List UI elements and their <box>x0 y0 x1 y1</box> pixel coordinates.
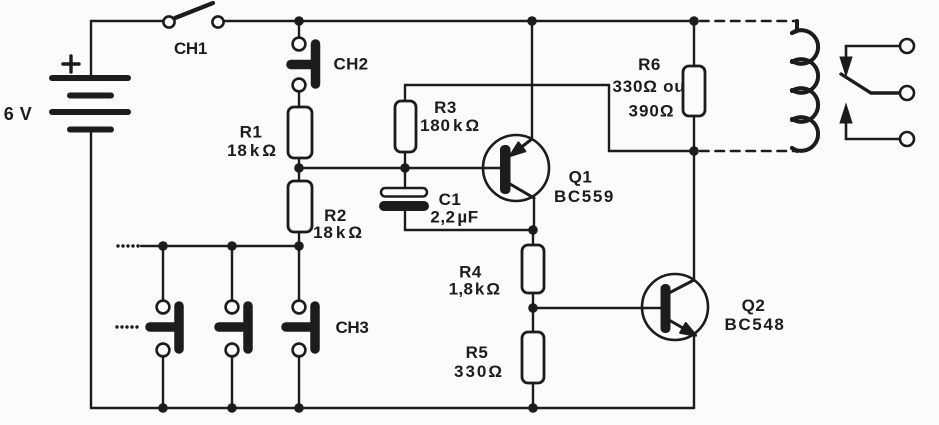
wire dashed bottom to relay coil <box>700 150 797 153</box>
label R1 <box>227 123 277 161</box>
pushbutton CH3c <box>286 252 315 408</box>
node junction CH3c/bottom rail <box>294 403 304 413</box>
svg-text:330Ω: 330Ω <box>454 362 504 381</box>
relay contact NO arm bottom <box>840 104 899 139</box>
svg-text:CH2: CH2 <box>334 55 369 74</box>
node junction CH3c/bus <box>294 241 304 251</box>
svg-text:CH3: CH3 <box>335 318 368 337</box>
switch CH1 <box>163 3 223 28</box>
svg-text:R3: R3 <box>434 98 457 117</box>
resistor R4 1.8k <box>522 230 544 332</box>
wire CH3 top bus <box>141 245 299 247</box>
svg-text:330Ω ou: 330Ω ou <box>612 77 685 96</box>
relay contact NC arm top <box>840 46 899 76</box>
pushbutton CH3a <box>150 246 179 408</box>
svg-text:18 k Ω: 18 k Ω <box>313 223 363 242</box>
resistor R3 180k <box>395 85 416 152</box>
wire R2 bottom to CH3 wire <box>298 232 300 252</box>
relay contact terminal middle <box>900 86 914 100</box>
node junction CH3a/bus <box>158 241 168 251</box>
node junction R6 top/top rail <box>689 16 699 26</box>
node junction CH2/top rail <box>294 16 304 26</box>
svg-text:1,8 k Ω: 1,8 k Ω <box>449 280 501 299</box>
svg-text:R5: R5 <box>466 343 489 362</box>
resistor R1 18k <box>288 107 312 158</box>
svg-text:390Ω: 390Ω <box>629 102 675 121</box>
dotted continuation CH3 plunger <box>115 325 138 328</box>
node junction C1/Q1 collector/R4 <box>528 225 538 235</box>
battery B1 6V <box>52 21 128 408</box>
resistor R6 330/390 <box>683 21 705 151</box>
relay contact common lever <box>841 74 899 93</box>
resistor R2 18k <box>288 181 312 232</box>
wire R1 bottom to R2 top <box>298 158 300 181</box>
svg-text:C1: C1 <box>439 190 462 209</box>
wire base line R1/R2 to Q1 base <box>299 167 503 169</box>
label Q1 <box>554 168 615 207</box>
wire top rail middle segment <box>224 20 694 22</box>
svg-text:Q1: Q1 <box>569 168 593 187</box>
svg-text:R1: R1 <box>240 123 263 142</box>
label C1 <box>430 190 478 227</box>
transistor Q2 BC548 <box>642 151 708 408</box>
svg-text:6 V: 6 V <box>4 104 33 124</box>
label CH2 <box>334 55 369 74</box>
label R5 <box>454 343 504 381</box>
wire bottom rail <box>91 407 694 409</box>
node junction CH3b/bus <box>227 241 237 251</box>
transistor Q1 BC559 <box>483 21 549 230</box>
wire R3 bottom lead <box>404 152 406 168</box>
wire dashed top to relay coil <box>700 20 797 23</box>
svg-text:180 k Ω: 180 k Ω <box>420 116 480 135</box>
relay contact terminal top <box>900 39 914 53</box>
label R2 <box>313 206 363 242</box>
svg-text:R6: R6 <box>638 55 661 74</box>
label R4 <box>449 263 501 299</box>
relay contact terminal bottom <box>900 132 914 146</box>
node junction R6 bottom/Q2 collector <box>689 146 699 156</box>
node junction CH3a/bottom rail <box>158 403 168 413</box>
relay coil K1 <box>792 21 818 151</box>
pushbutton CH3b <box>219 246 248 408</box>
svg-text:BC559: BC559 <box>554 187 615 206</box>
label R6 <box>612 55 685 121</box>
svg-text:18 k Ω: 18 k Ω <box>227 141 277 160</box>
label 6V <box>4 104 33 124</box>
label Q2 <box>725 296 786 334</box>
svg-text:2,2 µF: 2,2 µF <box>430 208 478 227</box>
node junction CH3b/bottom rail <box>227 403 237 413</box>
node junction R4/R5/Q2 base <box>528 303 538 313</box>
svg-text:Q2: Q2 <box>742 296 766 315</box>
svg-text:BC548: BC548 <box>725 315 786 334</box>
wire top rail left segment <box>91 20 163 22</box>
label CH3 <box>335 318 368 337</box>
wire R3 top to Q2 collector node <box>405 85 694 151</box>
resistor R5 330 <box>522 332 544 408</box>
dotted continuation CH3 bus <box>116 244 139 247</box>
node junction R1/R2/base wire <box>294 163 304 173</box>
label R3 <box>420 98 480 135</box>
svg-text:CH1: CH1 <box>174 39 207 58</box>
node junction Q1 emitter/top rail <box>527 16 537 26</box>
wire Q2 base <box>533 307 663 309</box>
pushbutton CH2 <box>291 21 316 107</box>
capacitor C1 2.2uF <box>381 168 533 230</box>
node junction R5/bottom rail <box>528 403 538 413</box>
label CH1 <box>174 39 207 58</box>
node junction R3/C1/base wire <box>400 163 410 173</box>
